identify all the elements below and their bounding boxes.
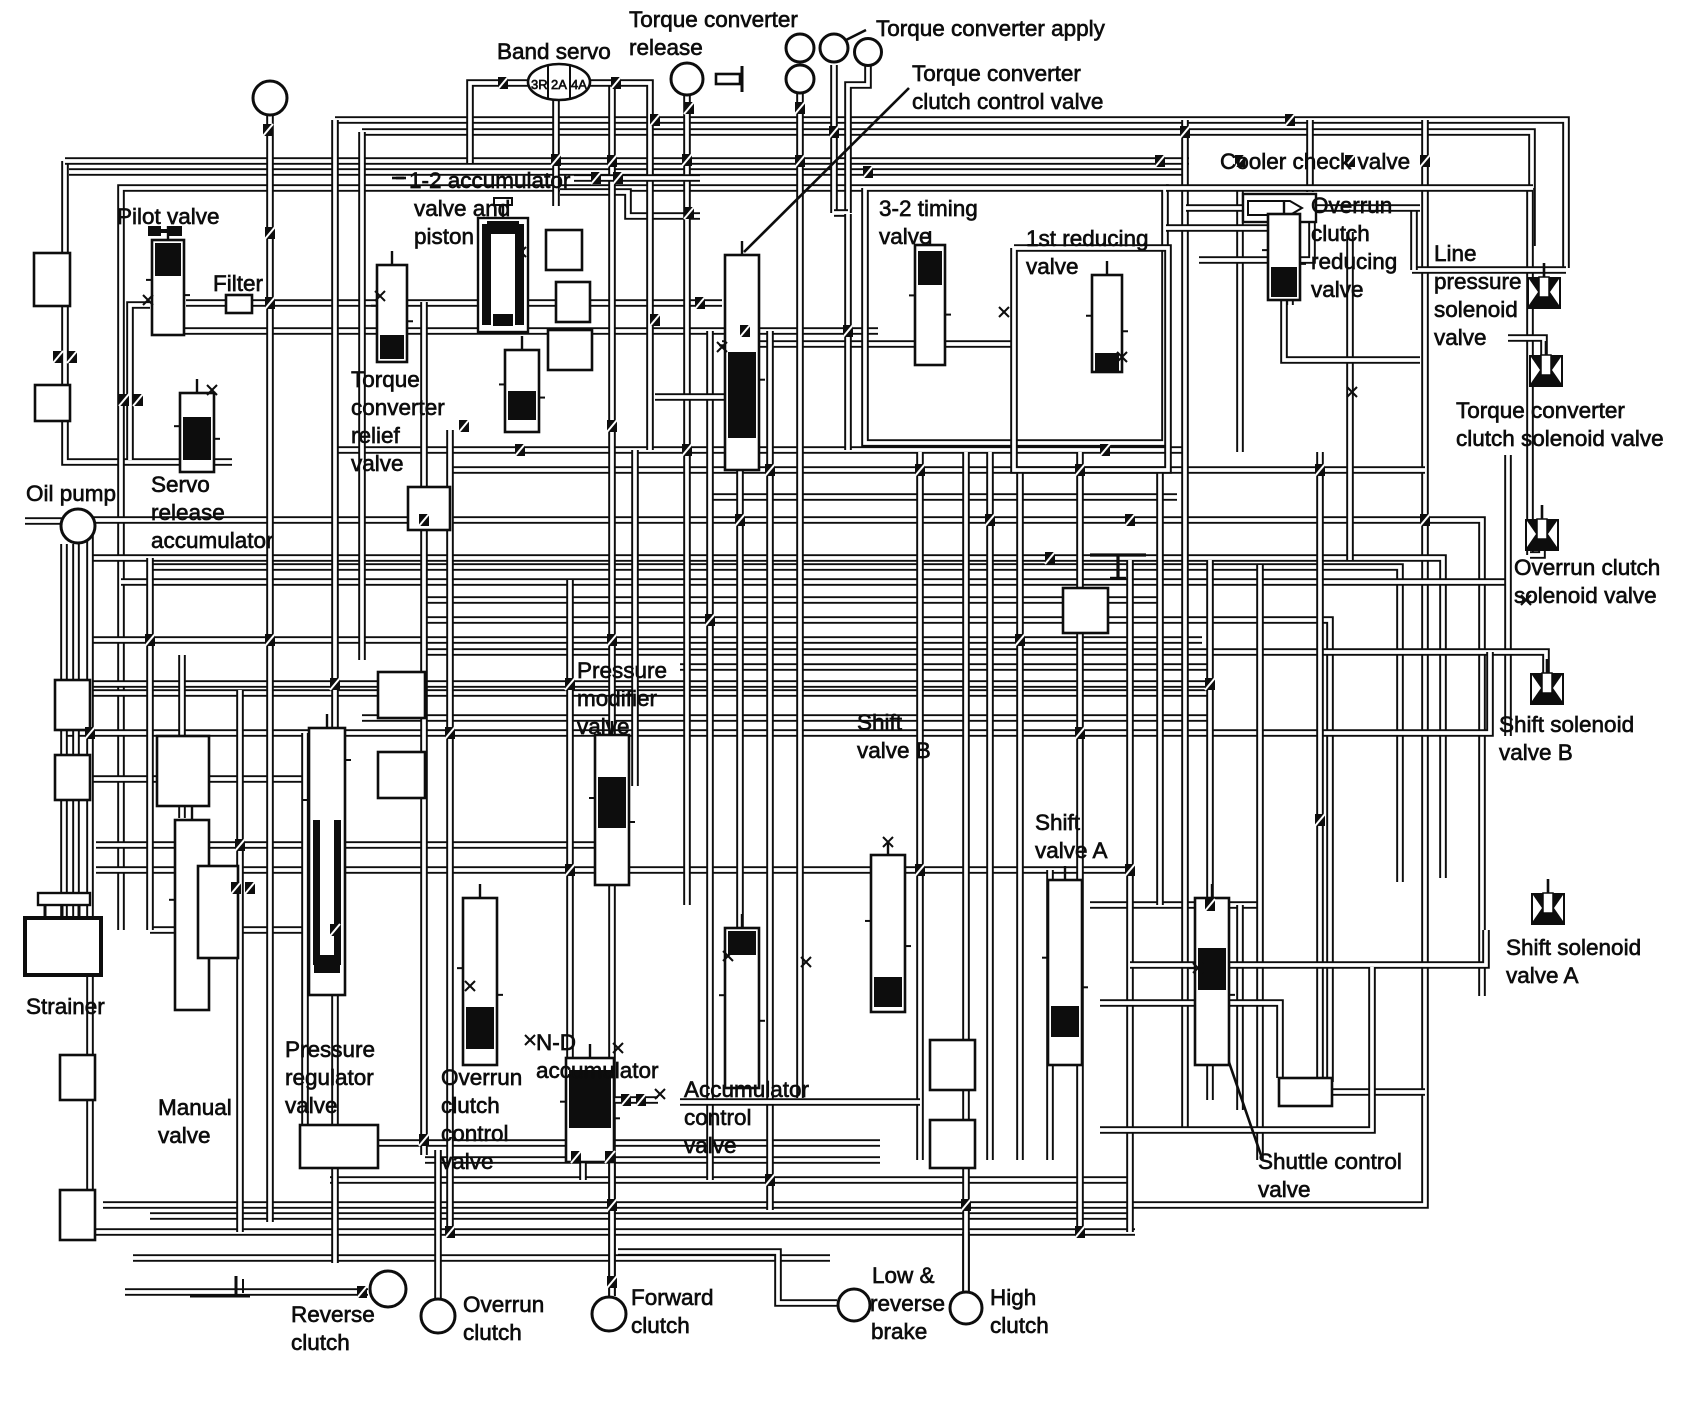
wire right pair y230 bbox=[1166, 224, 1268, 232]
wire oil pump left stub bbox=[25, 517, 62, 525]
wire overrun clutch circle riser bbox=[434, 1150, 442, 1298]
shift solenoid valve A SOL5 bbox=[1531, 879, 1565, 925]
svg-text:Accumulator: Accumulator bbox=[684, 1077, 810, 1102]
strainer bbox=[25, 893, 101, 975]
wire vertical x1160 bbox=[1156, 470, 1164, 905]
svg-text:accumulator: accumulator bbox=[151, 528, 274, 553]
wire left edge lower vertical bbox=[86, 520, 94, 1240]
svg-text:control: control bbox=[441, 1121, 509, 1146]
pressure regulator valve body bbox=[303, 714, 351, 995]
node forward clutch port bbox=[592, 1297, 626, 1331]
wire line y845 bbox=[96, 841, 610, 849]
svg-text:Overrun: Overrun bbox=[1311, 193, 1392, 218]
leader torque converter clutch control valve bbox=[744, 88, 909, 252]
label Torque converter release bbox=[629, 7, 798, 60]
label Forward clutch bbox=[631, 1285, 714, 1338]
label Torque converter relief valve bbox=[351, 367, 445, 476]
svg-text:Torque converter apply: Torque converter apply bbox=[876, 16, 1106, 41]
wire line y718 bbox=[362, 714, 1210, 722]
svg-text:clutch control valve: clutch control valve bbox=[912, 89, 1103, 114]
wire main vertical x335 bbox=[331, 120, 339, 1263]
label Overrun clutch solenoid valve bbox=[1514, 555, 1660, 608]
3-2 timing valve body bbox=[909, 231, 951, 365]
chamber box low reverse 1 bbox=[930, 1040, 975, 1090]
svg-text:Cooler check valve: Cooler check valve bbox=[1220, 149, 1410, 174]
svg-text:clutch: clutch bbox=[990, 1313, 1049, 1338]
chamber box low reverse 2 bbox=[930, 1120, 975, 1168]
svg-text:relief: relief bbox=[351, 423, 401, 448]
label High clutch bbox=[990, 1285, 1049, 1338]
label Pilot valve bbox=[117, 204, 220, 229]
label 1-2 accumulator valve and piston 3 bbox=[414, 224, 474, 249]
chamber box 1-2 right c bbox=[548, 330, 592, 370]
wire line pressure feed bbox=[1412, 266, 1566, 274]
label Torque converter clutch control valve bbox=[912, 61, 1103, 114]
svg-text:Shift: Shift bbox=[1035, 810, 1081, 835]
wire main vertical x270 bbox=[266, 116, 274, 1222]
svg-text:converter: converter bbox=[351, 395, 445, 420]
chamber box manual bottom bbox=[300, 1125, 378, 1168]
wire shuttle vertical x1210 bbox=[1206, 560, 1214, 1100]
label Torque converter apply bbox=[876, 16, 1106, 41]
svg-text:Shift: Shift bbox=[857, 710, 903, 735]
chamber box mid 2 bbox=[378, 672, 425, 718]
node overrun clutch port bbox=[421, 1299, 455, 1333]
wire long line y558 bbox=[92, 558, 1443, 878]
wire pilot output line bbox=[176, 327, 878, 335]
port box left 6 bbox=[60, 1190, 95, 1240]
svg-text:Forward: Forward bbox=[631, 1285, 714, 1310]
wire accumulator out line bbox=[680, 1098, 920, 1106]
wire long line y566 bbox=[151, 567, 1400, 882]
svg-text:Line: Line bbox=[1434, 241, 1477, 266]
label Low reverse brake 3 bbox=[871, 1319, 927, 1344]
overrun clutch solenoid valve SOL3 bbox=[1525, 505, 1559, 551]
wire manual valve stem bbox=[178, 655, 186, 818]
svg-text:Overrun: Overrun bbox=[441, 1065, 522, 1090]
wire overrun solenoid stem bbox=[1530, 521, 1542, 555]
wire vertical x920 bbox=[916, 452, 924, 1160]
label Shuttle control valve bbox=[1258, 1149, 1402, 1202]
torque converter clutch solenoid valve SOL2 bbox=[1529, 341, 1563, 387]
svg-text:Shuttle control: Shuttle control bbox=[1258, 1149, 1402, 1174]
label Shift valve B bbox=[857, 710, 931, 763]
svg-text:Filter: Filter bbox=[213, 271, 264, 296]
wire vertical x1130 bbox=[1126, 560, 1134, 1232]
wire long line y520 bbox=[91, 520, 1482, 996]
svg-text:valve: valve bbox=[158, 1123, 211, 1148]
wire vertical x424 bbox=[420, 302, 428, 1155]
svg-text:reducing: reducing bbox=[1311, 249, 1397, 274]
shift valve B body bbox=[865, 841, 911, 1012]
svg-text:valve: valve bbox=[351, 451, 404, 476]
label Filter bbox=[213, 271, 264, 296]
svg-text:reverse: reverse bbox=[870, 1291, 945, 1316]
wire bottom line y1160 bbox=[425, 1156, 880, 1164]
svg-text:1-2 accumulator: 1-2 accumulator bbox=[409, 168, 571, 193]
svg-text:valve: valve bbox=[577, 714, 630, 739]
label Low reverse brake 2 bbox=[870, 1291, 945, 1316]
wire mid line y450 bbox=[336, 446, 1186, 454]
wire forward clutch riser bbox=[608, 1155, 616, 1296]
svg-text:Shift solenoid: Shift solenoid bbox=[1506, 935, 1641, 960]
wire vertical x1310 top bbox=[1306, 120, 1314, 192]
node top left port bbox=[253, 81, 287, 115]
svg-text:2A: 2A bbox=[551, 77, 567, 92]
wire bottom line y1258 bbox=[133, 1254, 830, 1262]
wire shuttle lower pipe bbox=[1100, 1003, 1280, 1078]
wire oil pump drop bbox=[72, 544, 80, 922]
leader torque converter apply bbox=[842, 30, 866, 42]
wire line y640 bbox=[92, 636, 1202, 644]
wire vertical x990 bbox=[986, 452, 994, 1160]
wire band servo drop bbox=[552, 100, 560, 206]
wire apply jog bbox=[834, 209, 848, 217]
svg-text:valve A: valve A bbox=[1506, 963, 1579, 988]
svg-text:High: High bbox=[990, 1285, 1036, 1310]
pilot valve spring retainer bbox=[148, 226, 182, 236]
svg-text:clutch: clutch bbox=[631, 1313, 690, 1338]
svg-text:Overrun: Overrun bbox=[463, 1292, 544, 1317]
N-D accumulator body bbox=[560, 1044, 620, 1162]
wire cooler drop x1290 bbox=[1286, 196, 1294, 305]
wire mid line y470 bbox=[452, 466, 1425, 474]
svg-text:modifier: modifier bbox=[577, 686, 658, 711]
wire apply drop x868 bbox=[848, 66, 868, 213]
wire shift solenoid B feed bbox=[426, 652, 1546, 674]
svg-text:pressure: pressure bbox=[1434, 269, 1522, 294]
wire long line y160 bbox=[65, 157, 1189, 165]
svg-text:valve: valve bbox=[1434, 325, 1487, 350]
svg-text:Torque converter: Torque converter bbox=[629, 7, 798, 32]
chamber box manual right bbox=[198, 866, 238, 958]
torque converter release plug bbox=[716, 66, 742, 92]
wire high clutch riser bbox=[962, 1232, 970, 1292]
svg-text:valve: valve bbox=[441, 1149, 494, 1174]
port box left 3 bbox=[55, 680, 90, 730]
svg-text:clutch solenoid valve: clutch solenoid valve bbox=[1456, 426, 1664, 451]
node torque converter release port bbox=[671, 63, 703, 95]
drain x marks bbox=[143, 247, 1531, 1099]
leader shuttle control valve bbox=[1222, 1042, 1262, 1158]
label Reverse clutch bbox=[291, 1302, 375, 1355]
wire vertical x1240b bbox=[1236, 905, 1244, 1110]
svg-text:clutch: clutch bbox=[1311, 221, 1370, 246]
wire cooler check pipe2 bbox=[1199, 196, 1312, 260]
svg-text:piston: piston bbox=[414, 224, 474, 249]
svg-text:release: release bbox=[629, 35, 703, 60]
label Overrun clutch bottom bbox=[463, 1292, 544, 1345]
wire N-D side stem bbox=[612, 1096, 658, 1104]
port box left 4 bbox=[55, 755, 90, 800]
svg-text:1st reducing: 1st reducing bbox=[1026, 226, 1149, 251]
wire torque converter line bbox=[65, 161, 232, 462]
wire tcc feed stub bbox=[655, 393, 724, 401]
chamber box 1-2 right b bbox=[556, 282, 590, 322]
wire right pair y190 bbox=[1166, 184, 1533, 192]
wire line y930 bbox=[150, 926, 330, 934]
svg-text:N-D: N-D bbox=[536, 1030, 576, 1055]
label Line pressure solenoid valve bbox=[1434, 241, 1522, 350]
pilot valve body bbox=[146, 226, 190, 335]
node release lower port bbox=[786, 65, 814, 93]
svg-text:Torque converter: Torque converter bbox=[1456, 398, 1625, 423]
port junction marks bbox=[53, 77, 1430, 1298]
chamber box mid 1 bbox=[408, 487, 450, 530]
port box left 1 bbox=[34, 253, 70, 306]
wire vertical x1020 bbox=[1016, 470, 1024, 1160]
svg-text:4A: 4A bbox=[571, 77, 587, 92]
servo release accumulator body bbox=[174, 379, 220, 472]
filter box bbox=[226, 295, 252, 313]
wire vertical x635 bbox=[631, 450, 639, 786]
wire second top line bbox=[362, 132, 1532, 246]
overrun clutch control valve body bbox=[457, 884, 503, 1065]
svg-text:Reverse: Reverse bbox=[291, 1302, 375, 1327]
overrun clutch reducing valve body bbox=[1262, 200, 1306, 300]
svg-text:valve: valve bbox=[684, 1133, 737, 1158]
label 1-2 accumulator valve and piston bbox=[409, 168, 571, 193]
svg-text:Servo: Servo bbox=[151, 472, 210, 497]
wire high clutch vertical bbox=[962, 452, 970, 1292]
svg-text:regulator: regulator bbox=[285, 1065, 374, 1090]
svg-text:valve: valve bbox=[1258, 1177, 1311, 1202]
wire line y905 bbox=[1090, 901, 1260, 909]
wire overrun reducing drop bbox=[1284, 300, 1420, 360]
wire long line y582 bbox=[121, 578, 1508, 586]
wire filter line bbox=[186, 299, 722, 307]
label Servo release accumulator bbox=[151, 472, 274, 553]
wire vertical x1350 bbox=[1346, 232, 1354, 560]
svg-text:3-2 timing: 3-2 timing bbox=[879, 196, 978, 221]
wire N-D bottom drop bbox=[579, 1140, 587, 1180]
svg-text:Oil pump: Oil pump bbox=[26, 481, 116, 506]
wire apply drop x834 bbox=[830, 65, 838, 213]
wire vertical x1508 bbox=[1504, 455, 1512, 736]
wire bottom line y1232 bbox=[66, 1228, 1135, 1236]
wire top line pressure feed bbox=[335, 120, 1566, 268]
wire bottom line y1180 bbox=[330, 1176, 1130, 1184]
label Torque converter clutch solenoid valve bbox=[1456, 398, 1664, 451]
shift solenoid valve B SOL4 bbox=[1530, 659, 1564, 705]
svg-text:Torque: Torque bbox=[351, 367, 420, 392]
wire vertical x1185 bbox=[1181, 120, 1189, 1130]
wire vertical x1260 bbox=[1256, 565, 1264, 1160]
wire tcc solenoid feed bbox=[1508, 338, 1544, 358]
drain symbol bottom left bbox=[190, 1276, 250, 1296]
svg-text:valve B: valve B bbox=[1499, 740, 1573, 765]
manual valve body bbox=[169, 806, 215, 1010]
wire bottom line y1216 bbox=[150, 1212, 1130, 1220]
chamber box right 1 bbox=[1063, 588, 1108, 633]
chamber box 1-2 right a bbox=[546, 230, 582, 270]
svg-text:valve and: valve and bbox=[414, 196, 510, 221]
label Manual valve bbox=[158, 1095, 232, 1148]
wire mid line y667 bbox=[680, 663, 1210, 671]
wire pair line y693 bbox=[66, 689, 1210, 697]
node high clutch port bbox=[950, 1292, 982, 1324]
svg-text:Strainer: Strainer bbox=[26, 994, 105, 1019]
torque converter relief valve body bbox=[371, 251, 413, 362]
svg-text:clutch: clutch bbox=[463, 1320, 522, 1345]
wire band servo right bbox=[588, 83, 650, 450]
node low reverse brake port bbox=[838, 1289, 870, 1321]
label Oil pump bbox=[26, 481, 116, 506]
wire right long vertical bbox=[103, 120, 1425, 1205]
wire oil pump drop 2 bbox=[60, 544, 68, 918]
accumulator control valve body bbox=[719, 914, 765, 1088]
wire vertical x150 bbox=[146, 558, 154, 930]
wire vertical x360 bbox=[358, 132, 366, 660]
wire line y620 bbox=[424, 620, 1330, 1082]
wire shift solenoid A feed riser bbox=[1100, 967, 1372, 1130]
wire torque release drop bbox=[683, 95, 691, 905]
label Shift solenoid valve A bbox=[1506, 935, 1641, 988]
wire 3-2 timing box bbox=[865, 188, 1165, 443]
wire vertical x770 bbox=[766, 331, 774, 1210]
wire long line y733 bbox=[66, 652, 1490, 733]
wire vertical x450 bbox=[446, 430, 454, 1230]
label 3-2 timing valve bbox=[879, 196, 978, 249]
svg-text:valve B: valve B bbox=[857, 738, 931, 763]
label 1st reducing valve bbox=[1026, 226, 1149, 279]
pressure modifier valve body bbox=[589, 721, 635, 885]
wire line y1140 bbox=[300, 1139, 880, 1147]
svg-text:accumulator: accumulator bbox=[536, 1058, 659, 1083]
wire vertical x848 bbox=[844, 214, 852, 450]
label Strainer bbox=[26, 994, 105, 1019]
node torque converter apply port 1 bbox=[786, 34, 814, 62]
node oil pump bbox=[61, 509, 95, 543]
label Pressure regulator valve bbox=[285, 1037, 375, 1118]
wire line y779 bbox=[66, 775, 327, 783]
svg-text:Shift solenoid: Shift solenoid bbox=[1499, 712, 1634, 737]
line pressure solenoid valve SOL1 bbox=[1527, 263, 1561, 309]
label Low reverse brake bbox=[872, 1263, 935, 1288]
wire low reverse feed bbox=[618, 1252, 837, 1303]
wire vertical x1240 bbox=[1236, 190, 1244, 452]
svg-text:Pressure: Pressure bbox=[577, 658, 667, 683]
port box left 2 bbox=[35, 385, 70, 421]
label Cooler check valve bbox=[1220, 149, 1410, 174]
wire vertical x710 bbox=[706, 331, 714, 1180]
chamber box mid 3 bbox=[378, 752, 425, 798]
1st reducing valve body bbox=[1086, 261, 1128, 372]
wire pair line y684 bbox=[66, 680, 1210, 688]
label Overrun clutch control valve bbox=[441, 1065, 522, 1174]
svg-text:valve: valve bbox=[879, 224, 932, 249]
svg-text:Pilot valve: Pilot valve bbox=[117, 204, 220, 229]
svg-text:3R: 3R bbox=[531, 77, 548, 92]
wire pilot left drop bbox=[130, 305, 150, 460]
wire vertical x1320 bbox=[1316, 452, 1324, 1082]
wire shuttle box line bbox=[1332, 1088, 1425, 1096]
svg-text:Pressure: Pressure bbox=[285, 1037, 375, 1062]
svg-text:Overrun clutch: Overrun clutch bbox=[1514, 555, 1660, 580]
svg-text:clutch: clutch bbox=[291, 1330, 350, 1355]
label Pressure modifier valve bbox=[577, 658, 667, 739]
svg-text:valve A: valve A bbox=[1035, 838, 1108, 863]
wire tcc to timing line bbox=[722, 340, 1014, 348]
wire 1st reducing box bbox=[1014, 248, 1168, 470]
label 1-2 accumulator valve and piston 2 bbox=[414, 196, 510, 221]
svg-text:control: control bbox=[684, 1105, 752, 1130]
label Band servo bbox=[497, 39, 611, 64]
port box left 5 bbox=[60, 1055, 95, 1100]
svg-text:solenoid: solenoid bbox=[1434, 297, 1518, 322]
svg-text:release: release bbox=[151, 500, 225, 525]
wire vertical x240 bbox=[236, 690, 244, 1232]
shift valve A body bbox=[1042, 866, 1088, 1065]
label N-D accumulator bbox=[536, 1030, 659, 1083]
svg-text:brake: brake bbox=[871, 1319, 927, 1344]
wire apply drop x800 bbox=[796, 92, 804, 1098]
wire vertical x305 bbox=[301, 733, 309, 1140]
node torque converter apply port 3 bbox=[855, 39, 882, 66]
cooler check valve bbox=[1243, 194, 1316, 222]
shuttle control valve body bbox=[1189, 884, 1235, 1065]
svg-text:clutch: clutch bbox=[441, 1093, 500, 1118]
tee pipe symbol bbox=[1090, 555, 1146, 578]
label Overrun clutch reducing valve bbox=[1311, 193, 1397, 302]
label tick 1-2 accumulator bbox=[396, 177, 404, 180]
node torque converter apply port 2 bbox=[820, 34, 848, 62]
wire band servo left drop bbox=[470, 83, 529, 163]
band servo actuator bbox=[528, 64, 590, 100]
label Accumulator control valve bbox=[684, 1077, 810, 1158]
wire mid line y600 bbox=[424, 596, 1160, 604]
1-2 accumulator valve body bbox=[499, 336, 545, 432]
svg-text:valve: valve bbox=[1311, 277, 1364, 302]
node reverse clutch port bbox=[370, 1271, 406, 1307]
svg-text:valve: valve bbox=[285, 1093, 338, 1118]
wire 1-2 accumulator label line bbox=[392, 177, 700, 180]
chamber box manual top bbox=[157, 736, 209, 806]
label Shift solenoid valve B bbox=[1499, 712, 1634, 765]
wire line to 3-2 box bbox=[121, 188, 865, 930]
wire vertical x1080 bbox=[1076, 452, 1084, 1232]
wire vertical x1414 bbox=[1410, 210, 1418, 270]
wire band servo jog bbox=[560, 192, 700, 216]
chamber box shuttle bbox=[1279, 1078, 1332, 1106]
wire mid line y497 bbox=[710, 493, 1177, 501]
svg-text:Torque converter: Torque converter bbox=[912, 61, 1081, 86]
wire vertical x740 bbox=[736, 470, 744, 930]
wire right vertical x1530 bbox=[1526, 188, 1534, 555]
svg-text:solenoid valve: solenoid valve bbox=[1514, 583, 1657, 608]
wire vertical x570 bbox=[566, 580, 574, 1068]
wire vertical x1050 bbox=[1046, 870, 1054, 1160]
torque converter clutch control valve body bbox=[719, 241, 765, 470]
label Shift valve A bbox=[1035, 810, 1108, 863]
wire forward clutch vertical bbox=[608, 83, 616, 1296]
wire cooler check pipe bbox=[1186, 204, 1420, 212]
wire shift solenoid A feed bbox=[1130, 930, 1486, 965]
svg-text:Band servo: Band servo bbox=[497, 39, 611, 64]
svg-text:valve: valve bbox=[1026, 254, 1079, 279]
1-2 accumulator piston bbox=[478, 198, 528, 332]
wire reverse clutch line bbox=[125, 1288, 368, 1296]
wire line y870 bbox=[96, 866, 1130, 874]
svg-text:Low &: Low & bbox=[872, 1263, 935, 1288]
wire long line y171 bbox=[69, 168, 1182, 176]
svg-text:Manual: Manual bbox=[158, 1095, 232, 1120]
